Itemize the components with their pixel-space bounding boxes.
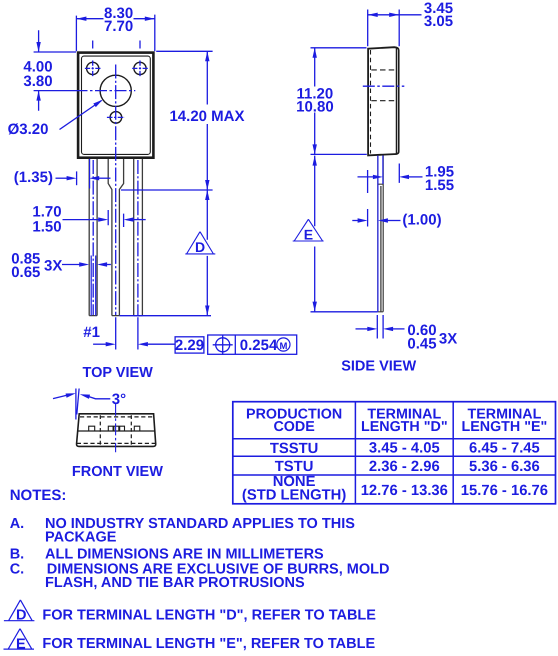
svg-text:FRONT VIEW: FRONT VIEW (72, 464, 163, 480)
dimension 1.95/1.55 lead to back face (358, 163, 455, 193)
dimension 1.70/1.50 wide lead width (32, 203, 145, 235)
lead 1 (left) outline (89, 159, 97, 316)
dimension D (terminal length) with flag note triangle (119, 190, 215, 316)
svg-text:E: E (304, 226, 313, 242)
svg-text:(STD LENGTH): (STD LENGTH) (242, 487, 346, 503)
large center hole (100, 75, 131, 106)
svg-text:1.50: 1.50 (32, 219, 61, 236)
lead edge extension lines (blue) (378, 156, 383, 312)
dimension 0.85/0.65 3X lead width (11, 251, 111, 316)
svg-text:TOP VIEW: TOP VIEW (83, 365, 154, 381)
small lower hole (110, 112, 122, 124)
svg-text:(1.35): (1.35) (14, 169, 53, 186)
package body outline (top view) (78, 53, 153, 158)
svg-text:0.65: 0.65 (11, 264, 40, 281)
reference dimension (1.35) (14, 169, 111, 186)
dimension E (terminal length) with flag note triangle (293, 156, 378, 312)
svg-text:D: D (16, 608, 26, 624)
dimension 8.30/7.70 body width (76, 5, 154, 51)
svg-text:ALL DIMENSIONS ARE IN MILLIMET: ALL DIMENSIONS ARE IN MILLIMETERS (45, 547, 324, 563)
svg-text:D: D (195, 239, 205, 255)
dimension 0.60/0.45 3X lead thickness (356, 315, 458, 352)
svg-text:3°: 3° (112, 391, 126, 408)
svg-text:3.45 - 4.05: 3.45 - 4.05 (369, 441, 440, 457)
horizontal centerline through large hole (34, 90, 76, 92)
svg-text:3.05: 3.05 (424, 13, 453, 30)
lead 3 centerline (137, 160, 139, 316)
svg-text:3X: 3X (44, 258, 62, 275)
note flag triangle D (4, 600, 35, 621)
vertical centerline front view (115, 404, 117, 452)
middle horizontal edge line (77, 430, 155, 432)
mounting hole upper-left (87, 62, 99, 74)
body mold parting dashed lines (371, 70, 396, 101)
lead 1 centerline (92, 160, 94, 315)
svg-text:B.: B. (10, 547, 25, 563)
svg-text:PACKAGE: PACKAGE (45, 530, 117, 546)
svg-text:NOTES:: NOTES: (10, 487, 67, 504)
lead 2 (middle) outline (108, 159, 123, 316)
svg-text:M: M (279, 341, 287, 352)
vertical dashed parting lines (100, 415, 131, 446)
horizontal centerline of body (363, 85, 405, 87)
lead 3 (right) outline (134, 159, 143, 316)
label diameter 3.20 with leader (8, 98, 104, 138)
table column lines (355, 402, 453, 504)
package body outline (side view) (368, 47, 399, 155)
svg-text:0.45: 0.45 (407, 335, 436, 352)
bottom dashed edge line (77, 442, 156, 444)
lead cross sections on mid line (89, 426, 140, 431)
centerline crosshair of upper-right hole (132, 67, 148, 69)
draft angle 3 degrees callout (53, 389, 126, 420)
svg-text:1.55: 1.55 (425, 177, 454, 194)
svg-text:TSTU: TSTU (275, 459, 314, 475)
svg-text:2.29: 2.29 (175, 337, 204, 354)
lead inner bend edge (380, 186, 382, 312)
svg-text:FOR TERMINAL LENGTH "E", REFER: FOR TERMINAL LENGTH "E", REFER TO TABLE (42, 636, 375, 652)
lead (side view) outline (378, 155, 383, 311)
extension line on lead 1 left edge (89, 159, 91, 189)
reference dimension (1.00) lead offset (352, 209, 441, 228)
svg-text:A.: A. (10, 516, 25, 532)
svg-text:E: E (16, 636, 26, 652)
top dashed edge line (80, 416, 154, 418)
svg-text:0.254: 0.254 (240, 337, 278, 354)
svg-text:Ø3.20: Ø3.20 (8, 121, 49, 138)
svg-text:FOR TERMINAL LENGTH "D", REFER: FOR TERMINAL LENGTH "D", REFER TO TABLE (42, 607, 376, 623)
table row lines (233, 439, 556, 475)
package body inner edge line (82, 56, 151, 154)
note flag triangle E (4, 629, 35, 649)
svg-text:3X: 3X (439, 331, 457, 348)
dimension 4.00/3.80 hole position (23, 30, 76, 111)
table border (233, 402, 556, 504)
svg-text:LENGTH "D": LENGTH "D" (361, 419, 448, 435)
svg-text:2.36 - 2.96: 2.36 - 2.96 (369, 459, 440, 475)
feature control frame true position 0.254 M (208, 335, 297, 355)
dimension 14.20 MAX (121, 51, 245, 190)
svg-text:15.76 - 16.76: 15.76 - 16.76 (461, 483, 548, 499)
svg-text:SIDE VIEW: SIDE VIEW (341, 359, 416, 375)
package body outline (front view) (77, 414, 156, 447)
dimension 3.45/3.05 body thickness (368, 0, 453, 46)
horizontal crosshair of small hole (107, 116, 125, 118)
dimension 11.20/10.80 body height (296, 48, 367, 155)
svg-text:5.36 - 6.36: 5.36 - 6.36 (469, 459, 540, 475)
body front face edge line (395, 47, 397, 154)
svg-text:LENGTH "E": LENGTH "E" (461, 419, 547, 435)
svg-text:#1: #1 (83, 324, 100, 341)
svg-text:CODE: CODE (273, 419, 314, 435)
svg-text:10.80: 10.80 (296, 98, 334, 115)
svg-text:3.80: 3.80 (23, 73, 52, 90)
body draft dashed line left (370, 50, 372, 154)
svg-text:12.76 - 13.36: 12.76 - 13.36 (361, 483, 448, 499)
svg-text:7.70: 7.70 (104, 18, 133, 35)
svg-text:14.20 MAX: 14.20 MAX (169, 108, 244, 125)
svg-text:(1.00): (1.00) (402, 211, 441, 228)
vertical body centerline (115, 65, 117, 317)
centerline crosshair of upper-left hole (85, 67, 101, 69)
svg-text:6.45 - 7.45: 6.45 - 7.45 (469, 441, 540, 457)
svg-text:FLASH, AND TIE BAR PROTRUSIONS: FLASH, AND TIE BAR PROTRUSIONS (45, 575, 305, 591)
svg-text:C.: C. (10, 561, 25, 577)
svg-text:TSSTU: TSSTU (270, 441, 319, 457)
dimension 2.29 lead pitch (93, 317, 204, 354)
mounting hole upper-right (134, 62, 146, 74)
